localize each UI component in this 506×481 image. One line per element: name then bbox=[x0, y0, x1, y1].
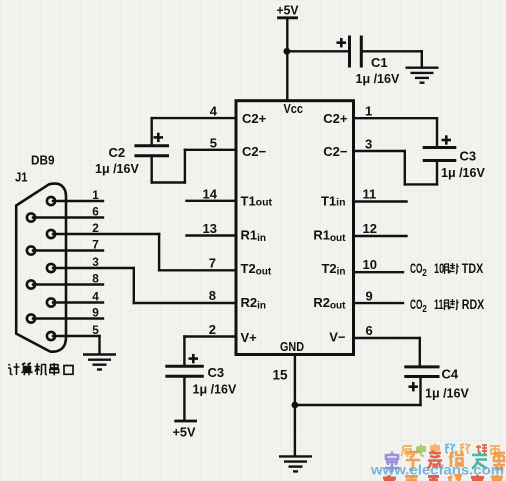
svg-text:V−: V− bbox=[329, 330, 346, 345]
svg-text:9: 9 bbox=[366, 289, 373, 304]
svg-text:10: 10 bbox=[434, 261, 444, 276]
svg-text:RDX: RDX bbox=[462, 297, 485, 312]
svg-text:T1out: T1out bbox=[241, 194, 273, 209]
svg-text:C2+: C2+ bbox=[323, 111, 348, 126]
svg-text:4: 4 bbox=[92, 290, 99, 304]
svg-text:V+: V+ bbox=[241, 330, 258, 345]
svg-text:1μ /16V: 1μ /16V bbox=[441, 166, 485, 180]
svg-text:C4: C4 bbox=[442, 367, 459, 382]
svg-text:C2−: C2− bbox=[323, 144, 348, 159]
svg-text:J1: J1 bbox=[15, 170, 28, 185]
svg-text:2: 2 bbox=[422, 268, 427, 279]
svg-text:+5V: +5V bbox=[277, 3, 299, 18]
svg-text:11: 11 bbox=[363, 187, 377, 202]
svg-text:8: 8 bbox=[209, 288, 216, 303]
svg-text:14: 14 bbox=[203, 186, 218, 201]
svg-text:T1in: T1in bbox=[321, 194, 346, 209]
svg-text:C1: C1 bbox=[371, 55, 388, 70]
svg-text:C2+: C2+ bbox=[242, 111, 267, 126]
svg-text:6: 6 bbox=[92, 205, 99, 219]
svg-text:1μ /16V: 1μ /16V bbox=[425, 387, 469, 401]
svg-text:3: 3 bbox=[365, 137, 372, 152]
svg-text:1μ /16V: 1μ /16V bbox=[356, 72, 400, 86]
svg-text:C3: C3 bbox=[460, 149, 477, 164]
svg-text:7: 7 bbox=[92, 238, 99, 252]
svg-text:1μ /16V: 1μ /16V bbox=[95, 162, 139, 176]
svg-text:T2out: T2out bbox=[241, 261, 272, 278]
svg-text:6: 6 bbox=[366, 323, 373, 338]
svg-text:T2in: T2in bbox=[321, 261, 345, 278]
svg-text:+5V: +5V bbox=[173, 425, 196, 440]
svg-text:2: 2 bbox=[92, 221, 99, 235]
svg-text:9: 9 bbox=[92, 306, 99, 320]
svg-text:C2−: C2− bbox=[242, 144, 267, 159]
svg-text:13: 13 bbox=[203, 221, 217, 236]
svg-text:1: 1 bbox=[365, 104, 372, 119]
svg-text:DB9: DB9 bbox=[31, 153, 55, 168]
svg-text:C3: C3 bbox=[208, 365, 225, 380]
svg-text:R1out: R1out bbox=[313, 228, 346, 245]
svg-text:2: 2 bbox=[422, 304, 427, 315]
svg-text:11: 11 bbox=[434, 297, 444, 312]
svg-text:4: 4 bbox=[210, 104, 218, 119]
svg-text:CO: CO bbox=[410, 297, 423, 312]
svg-text:15: 15 bbox=[273, 368, 289, 383]
svg-text:12: 12 bbox=[363, 221, 377, 236]
svg-text:8: 8 bbox=[92, 272, 99, 286]
svg-text:CO: CO bbox=[410, 261, 423, 276]
svg-text:5: 5 bbox=[210, 136, 217, 151]
svg-text:1: 1 bbox=[92, 188, 99, 202]
svg-text:GND: GND bbox=[280, 339, 304, 354]
svg-text:TDX: TDX bbox=[462, 261, 484, 276]
svg-text:2: 2 bbox=[209, 322, 216, 337]
svg-text:C2: C2 bbox=[109, 145, 126, 160]
svg-text:R1in: R1in bbox=[241, 228, 267, 245]
svg-text:R2in: R2in bbox=[241, 295, 267, 312]
svg-text:1μ /16V: 1μ /16V bbox=[193, 383, 237, 397]
svg-text:7: 7 bbox=[209, 255, 216, 270]
svg-text:10: 10 bbox=[363, 257, 377, 272]
svg-text:Vcc: Vcc bbox=[284, 101, 304, 116]
svg-text:R2out: R2out bbox=[313, 295, 346, 312]
svg-text:3: 3 bbox=[92, 255, 99, 269]
svg-text:5: 5 bbox=[92, 323, 99, 337]
